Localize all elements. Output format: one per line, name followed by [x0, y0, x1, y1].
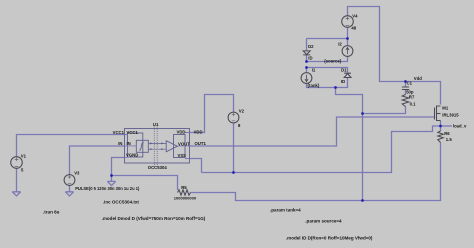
svg-text:{source}: {source}	[324, 58, 342, 63]
op-amp U1 output-side inner rect	[174, 135, 186, 158]
junction M1 source / R6 / load_v	[439, 125, 442, 128]
op-amp U1 output amplifier triangle	[166, 141, 177, 152]
svg-text:VOUT: VOUT	[178, 141, 190, 146]
voltage source V4	[342, 16, 354, 28]
wire V3 bottom lead	[69, 185, 71, 191]
op-amp U1 sigmoid glyph	[139, 143, 143, 151]
svg-text:ID: ID	[308, 56, 312, 61]
junction V4 bottom / I2 top / D2 row	[346, 37, 349, 40]
svg-text:VSS: VSS	[177, 153, 186, 158]
resistor R5 (horizontal)	[178, 190, 191, 195]
svg-text:V2: V2	[239, 109, 245, 114]
ground VGND	[107, 181, 115, 185]
svg-text:M1: M1	[442, 106, 449, 111]
svg-text:R5: R5	[181, 185, 187, 190]
wire VGND junction to R5 left lead	[112, 176, 178, 191]
op-amp U1 isolation barrier (dashed)	[154, 127, 157, 167]
voltage source V2	[228, 112, 239, 123]
svg-text:.inc OCC5304.txt: .inc OCC5304.txt	[103, 199, 140, 204]
junction V2 bottom on VSS rail	[232, 171, 235, 174]
wire V4 top over to Vdd rail and M1 drain	[348, 7, 441, 105]
wire C1 top lead	[405, 82, 407, 88]
svg-text:Vdd: Vdd	[414, 76, 422, 81]
wire D2 bottom lead	[306, 55, 308, 62]
wire R7 bottom tap to x362 node	[363, 107, 406, 114]
wire V4 bottom lead	[347, 28, 349, 39]
svg-text:load_v: load_v	[453, 124, 467, 129]
svg-text:D2: D2	[308, 44, 314, 49]
wire tank rail jog down to bottom rail	[336, 88, 363, 201]
diode D2 (pointing down)	[303, 51, 310, 55]
op-amp U1 right arrowheads	[161, 142, 164, 150]
wire second row: I1 top junction to D1 top	[307, 68, 348, 73]
ground below V1	[12, 192, 20, 196]
svg-text:0.1: 0.1	[410, 101, 417, 106]
op-amp U1 outer box	[125, 129, 190, 164]
voltage source V3	[64, 175, 75, 186]
wire VOUT/OUT1 net to M1 gate	[190, 117, 435, 146]
svg-text:.model ID D(Ron=0 Roff=10Meg V: .model ID D(Ron=0 Roff=10Meg Vfwd=0)	[286, 235, 373, 240]
junction D2 bottom / source row	[305, 60, 308, 63]
svg-text:V4: V4	[352, 14, 358, 19]
svg-text:VCC1: VCC1	[127, 130, 139, 135]
wire VGND pin to ground	[112, 158, 125, 182]
junction tank bottom rail	[334, 86, 337, 89]
svg-text:D1: D1	[341, 67, 347, 72]
current source I1 (tank, arrow down)	[301, 73, 312, 84]
svg-text:VGND: VGND	[126, 152, 138, 157]
svg-text:V1: V1	[21, 154, 27, 159]
wire load_v stub	[441, 125, 453, 127]
wire V2 bottom to VSS rail	[233, 123, 235, 173]
svg-text:OCC5304: OCC5304	[148, 165, 168, 170]
diode D1 (pointing up)	[344, 73, 351, 77]
resistor R7 (vertical)	[402, 95, 409, 107]
svg-text:.param source=4: .param source=4	[305, 218, 342, 223]
ground below V3	[65, 192, 73, 196]
wire D2 top lead	[306, 39, 308, 52]
wire R6 top lead	[440, 126, 442, 131]
svg-text:PULSE(0 5 120n 30n 30n 1u 2u 1: PULSE(0 5 120n 30n 30n 1u 2u 1)	[75, 186, 140, 191]
wire I1 top lead	[306, 68, 308, 74]
svg-text:C1: C1	[407, 81, 413, 86]
svg-text:U1: U1	[153, 122, 159, 127]
wire V1 bottom lead	[16, 168, 18, 192]
svg-text:IN: IN	[127, 141, 131, 146]
voltage source V1	[11, 157, 23, 169]
current source I2 (source, arrow up)	[342, 46, 353, 57]
junction R7 tap on x362 node	[361, 112, 364, 115]
svg-text:V3: V3	[74, 170, 80, 175]
svg-text:{tank}: {tank}	[307, 83, 319, 88]
svg-text:.tran 6u: .tran 6u	[43, 209, 60, 214]
capacitor C1	[402, 87, 409, 90]
op-amp U1 signal lines across barrier	[148, 143, 166, 149]
wire VDD pin to V2 top	[190, 95, 234, 133]
svg-text:IN: IN	[118, 141, 122, 146]
svg-text:VDD: VDD	[194, 129, 203, 134]
resistor R6 (vertical)	[438, 131, 443, 143]
junction VGND / ground / R5 net	[110, 174, 113, 177]
wire VSS pin down to rail	[190, 159, 202, 173]
op-amp U1 left arrowheads	[150, 142, 153, 150]
wire source row: D2 junction to I2 bottom	[307, 57, 348, 62]
svg-text:IRL3915: IRL3915	[442, 112, 459, 117]
svg-text:.param tank=4: .param tank=4	[270, 207, 301, 212]
wire M1 source to load_v junction	[440, 121, 442, 127]
op-amp U1 pin stubs	[125, 133, 190, 159]
svg-text:VDD: VDD	[177, 129, 186, 134]
svg-text:48: 48	[351, 26, 356, 31]
svg-text:OUT1: OUT1	[195, 141, 207, 146]
op-amp U1 input-side inner rect	[128, 133, 143, 157]
wire IN net: V3 top to U1 pin IN	[70, 146, 125, 175]
wire VCC1 net: V1 top to U1 pin VCC1	[17, 135, 125, 157]
wire tank bottom rail: I1 bottom to D1 bottom	[307, 77, 348, 88]
junction C1 top on Vdd rail	[404, 80, 407, 83]
wire VSS rail to load_v junction	[202, 126, 441, 173]
junction x362 node on bottom rail	[361, 199, 364, 202]
svg-text:1.5: 1.5	[446, 137, 453, 142]
svg-text:ID: ID	[341, 79, 345, 84]
svg-text:VCC1: VCC1	[113, 130, 125, 135]
transistor M1 (NMOS)	[435, 106, 441, 122]
wire C1 bottom lead	[405, 90, 407, 95]
svg-text:.model Dmod D (Vfwd=750m Ron=1: .model Dmod D (Vfwd=750m Ron=10m Roff=1G…	[102, 216, 206, 221]
svg-text:R7: R7	[409, 94, 415, 99]
op-amp U1 sigma-delta modulator box	[136, 140, 148, 152]
wire I2 top lead	[347, 39, 349, 47]
junction I1 top / second row	[305, 66, 308, 69]
wire top tank row: D2 top to V4 bottom junction	[307, 38, 348, 40]
svg-text:1000000000: 1000000000	[174, 196, 197, 201]
wire R5 right lead to bottom rail up to R6 bottom	[191, 143, 441, 201]
svg-text:R6: R6	[444, 131, 450, 136]
